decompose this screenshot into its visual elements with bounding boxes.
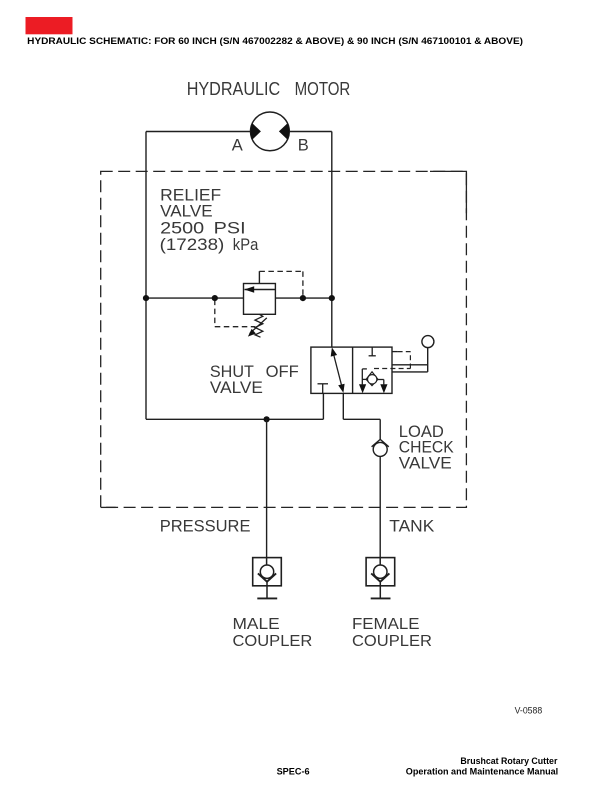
- motor triangle right: [279, 123, 289, 139]
- valve left-cell blocked port: [318, 384, 329, 394]
- label MALE COUPLER: [233, 616, 313, 650]
- relief valve RV1 body: [244, 284, 276, 315]
- svg-text:kPa: kPa: [233, 235, 259, 254]
- female coupler QC2: [366, 558, 395, 599]
- svg-text:COUPLER: COUPLER: [233, 633, 313, 650]
- node relief-right junction: [329, 295, 335, 301]
- svg-text:OFF: OFF: [266, 362, 299, 381]
- enclosure dashed box: [101, 171, 467, 507]
- pilot dashed line bottom-left: [215, 300, 255, 327]
- wire tank down to female coupler: [379, 456, 381, 557]
- wire pressure down to male coupler: [266, 419, 268, 557]
- svg-text:SPEC-6: SPEC-6: [277, 767, 310, 778]
- male coupler QC1: [253, 558, 282, 599]
- node pilot-left junction: [212, 295, 218, 301]
- label HYDRAULIC MOTOR: [187, 79, 351, 99]
- svg-text:Brushcat Rotary Cutter: Brushcat Rotary Cutter: [460, 756, 557, 767]
- node pressure junction: [264, 416, 270, 422]
- svg-text:MALE: MALE: [233, 616, 280, 633]
- valve check piping: [362, 369, 384, 385]
- svg-text:MOTOR: MOTOR: [295, 79, 351, 99]
- valve check ball: [368, 375, 377, 384]
- svg-text:V-0588: V-0588: [515, 706, 543, 716]
- wire pressure horizontal: [146, 418, 323, 420]
- svg-text:VALVE: VALVE: [399, 453, 452, 472]
- node relief-left junction: [143, 295, 149, 301]
- link annotation red box: [26, 17, 73, 34]
- valve flow arrowhead right: [380, 384, 387, 393]
- wire valve to tank line: [343, 393, 380, 439]
- wire motor B to right rail: [289, 131, 332, 133]
- wire relief branch left: [146, 297, 244, 299]
- wire motor A to left rail: [146, 131, 251, 133]
- label RELIEF VALVE 2500 PSI (17238) kPa: [160, 185, 259, 254]
- valve left-cell diagonal flow line: [333, 352, 343, 389]
- relief spring: [255, 314, 263, 337]
- svg-text:VALVE: VALVE: [210, 378, 263, 397]
- valve flow arrowhead left: [359, 384, 366, 393]
- detent pilot solid stub: [392, 351, 398, 353]
- shut off valve V1 body: [311, 347, 392, 393]
- node pilot-right junction: [300, 295, 306, 301]
- diagonal arrowhead bottom: [338, 384, 344, 393]
- lever linkage: [392, 348, 428, 372]
- valve right-cell blocked port: [369, 347, 376, 356]
- svg-text:HYDRAULIC SCHEMATIC: FOR 60 IN: HYDRAULIC SCHEMATIC: FOR 60 INCH (S/N 46…: [27, 36, 523, 47]
- label FEMALE COUPLER: [352, 616, 432, 650]
- relief adjust arrow: [250, 318, 267, 334]
- svg-text:A: A: [232, 137, 243, 155]
- relief valve flow arrow: [244, 286, 254, 293]
- diagonal arrowhead top: [331, 347, 337, 356]
- lever knob: [422, 336, 434, 348]
- label LOAD CHECK VALVE: [399, 422, 455, 472]
- wire right rail vertical: [331, 132, 333, 348]
- detent pilot dashed: [374, 352, 410, 369]
- pilot dashed line top: [259, 271, 303, 296]
- svg-text:FEMALE: FEMALE: [352, 616, 420, 633]
- svg-text:(17238): (17238): [160, 235, 225, 254]
- wire left rail vertical: [145, 132, 147, 420]
- label SHUT OFF VALVE: [210, 362, 299, 397]
- svg-text:PRESSURE: PRESSURE: [160, 517, 251, 536]
- hydraulic motor M1: [251, 112, 290, 151]
- valve check diamond: [366, 372, 378, 386]
- svg-text:HYDRAULIC: HYDRAULIC: [187, 79, 281, 99]
- load check valve CV1: [372, 439, 389, 446]
- relief valve pilot stub: [258, 271, 260, 283]
- wire relief branch right: [275, 297, 331, 299]
- motor triangle left: [250, 123, 260, 139]
- svg-text:B: B: [298, 137, 309, 155]
- svg-text:COUPLER: COUPLER: [352, 633, 432, 650]
- svg-text:Operation and Maintenance Manu: Operation and Maintenance Manual: [406, 767, 558, 778]
- svg-text:TANK: TANK: [389, 517, 435, 536]
- wire valve to pressure line: [322, 393, 324, 419]
